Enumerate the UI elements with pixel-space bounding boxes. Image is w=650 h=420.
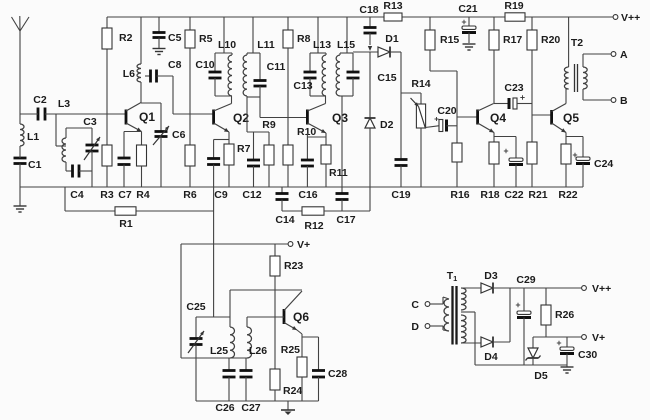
svg-text:R3: R3 bbox=[100, 189, 114, 201]
resistor R7 bbox=[224, 132, 251, 187]
transistor Q3 bbox=[307, 104, 348, 134]
svg-text:C3: C3 bbox=[83, 116, 97, 128]
svg-text:R23: R23 bbox=[284, 260, 303, 272]
svg-text:R6: R6 bbox=[183, 189, 197, 201]
antenna bbox=[12, 16, 30, 114]
capacitor C8 bbox=[145, 59, 182, 83]
svg-text:C19: C19 bbox=[391, 189, 410, 201]
resistor R9 bbox=[264, 132, 274, 187]
svg-text:L13: L13 bbox=[313, 39, 331, 51]
tank L15 bbox=[336, 17, 360, 187]
wire (emitter node) bbox=[297, 330, 319, 357]
resistor R5 bbox=[185, 17, 213, 114]
resistor R15 bbox=[425, 17, 459, 71]
diode D1 bbox=[353, 33, 401, 58]
wire V+ node bbox=[533, 336, 582, 338]
terminal D bbox=[411, 321, 449, 333]
capacitor C24 bbox=[566, 137, 613, 188]
wire (Q4 base) bbox=[457, 116, 478, 118]
svg-text:C7: C7 bbox=[118, 189, 132, 201]
capacitor C5 bbox=[153, 17, 182, 55]
capacitor C22 bbox=[494, 137, 524, 202]
resistor R1 bbox=[65, 187, 214, 230]
svg-text:C12: C12 bbox=[242, 189, 261, 201]
svg-text:C11: C11 bbox=[267, 61, 286, 73]
capacitor C29 bbox=[516, 274, 536, 365]
resistor R12 bbox=[302, 207, 342, 232]
svg-text:D2: D2 bbox=[380, 119, 394, 131]
svg-text:Q1: Q1 bbox=[139, 110, 155, 124]
svg-text:C23: C23 bbox=[504, 82, 523, 94]
diode D5 (zener) bbox=[526, 337, 548, 382]
svg-text:Q3: Q3 bbox=[332, 111, 348, 125]
svg-text:C6: C6 bbox=[172, 129, 186, 141]
resistor R10 bbox=[283, 118, 316, 188]
transistor Q6 bbox=[284, 291, 309, 330]
resistor R18 bbox=[480, 133, 499, 202]
svg-text:R13: R13 bbox=[383, 0, 402, 12]
svg-text:R18: R18 bbox=[480, 189, 499, 201]
transistor Q5 bbox=[552, 89, 580, 133]
capacitor C17 bbox=[336, 187, 371, 226]
transistor Q4 bbox=[478, 104, 507, 133]
resistor R25 bbox=[281, 344, 307, 401]
svg-text:L26: L26 bbox=[249, 345, 267, 357]
svg-text:C1: C1 bbox=[28, 159, 42, 171]
svg-text:L1: L1 bbox=[27, 131, 39, 143]
resistor R21 bbox=[527, 104, 548, 202]
diode D2 (zener) bbox=[365, 52, 394, 187]
svg-text:C28: C28 bbox=[328, 368, 347, 380]
inductor L25 bbox=[210, 327, 235, 358]
ground (antenna) bbox=[14, 187, 27, 212]
wire tank bottom bbox=[181, 357, 247, 359]
svg-text:R24: R24 bbox=[283, 385, 302, 397]
inductor L6 bbox=[123, 17, 141, 103]
wire (tank to Q3 base) bbox=[260, 97, 307, 118]
terminal C bbox=[411, 297, 449, 311]
ground (psu) bbox=[561, 365, 574, 373]
svg-text:Q4: Q4 bbox=[490, 111, 506, 125]
svg-text:C27: C27 bbox=[241, 402, 260, 414]
svg-text:L15: L15 bbox=[337, 39, 355, 51]
resistor R8 bbox=[283, 17, 311, 118]
svg-text:C29: C29 bbox=[516, 274, 535, 286]
svg-text:D5: D5 bbox=[534, 370, 548, 382]
svg-text:V+: V+ bbox=[297, 239, 310, 251]
capacitor C26 bbox=[215, 358, 235, 414]
inductor L3 bbox=[56, 98, 70, 162]
svg-text:R26: R26 bbox=[555, 309, 574, 321]
svg-text:C14: C14 bbox=[275, 214, 294, 226]
transformer T1 bbox=[444, 270, 466, 345]
svg-text:R5: R5 bbox=[199, 33, 213, 45]
svg-text:L6: L6 bbox=[123, 68, 135, 80]
potentiometer R14 bbox=[401, 78, 431, 187]
capacitor C9 bbox=[207, 140, 229, 202]
svg-text:B: B bbox=[620, 95, 628, 107]
resistor R11 bbox=[321, 133, 348, 187]
svg-text:T2: T2 bbox=[571, 37, 583, 49]
svg-text:V+: V+ bbox=[592, 332, 605, 344]
svg-text:A: A bbox=[620, 49, 628, 61]
capacitor C6 (variable) bbox=[141, 103, 186, 187]
svg-text:D: D bbox=[411, 321, 419, 333]
resistor R6 bbox=[183, 114, 197, 201]
svg-text:D1: D1 bbox=[385, 33, 399, 45]
svg-text:R8: R8 bbox=[297, 33, 311, 45]
resistor R4 bbox=[136, 132, 150, 202]
svg-text:V++: V++ bbox=[621, 12, 640, 24]
diode D4 bbox=[461, 288, 510, 363]
svg-text:R14: R14 bbox=[411, 78, 430, 90]
wire (Q6 base) bbox=[247, 316, 284, 318]
svg-text:L3: L3 bbox=[58, 98, 70, 110]
resistor R22 bbox=[558, 133, 577, 202]
svg-text:C21: C21 bbox=[458, 3, 477, 15]
inductor L1 bbox=[20, 114, 39, 146]
capacitor C23 bbox=[494, 82, 532, 109]
terminal V+ (oscillator) bbox=[288, 239, 310, 251]
capacitor C16 bbox=[298, 133, 326, 201]
svg-text:C20: C20 bbox=[437, 105, 456, 117]
svg-text:C2: C2 bbox=[33, 94, 47, 106]
svg-text:R19: R19 bbox=[504, 0, 523, 12]
resistor R13 bbox=[383, 0, 402, 21]
svg-text:C30: C30 bbox=[578, 349, 597, 361]
wire top supply rail bbox=[107, 16, 613, 18]
terminal V+ (psu) bbox=[582, 332, 606, 344]
capacitor C14 bbox=[275, 187, 302, 226]
svg-text:C26: C26 bbox=[215, 402, 234, 414]
wire (Q5 base) bbox=[532, 114, 552, 116]
svg-text:C5: C5 bbox=[168, 32, 182, 44]
svg-text:C18: C18 bbox=[359, 4, 378, 16]
svg-text:R9: R9 bbox=[262, 119, 276, 131]
wire V+ feed bbox=[181, 244, 288, 358]
svg-text:C24: C24 bbox=[594, 158, 613, 170]
terminal A bbox=[583, 49, 628, 67]
svg-text:C13: C13 bbox=[293, 80, 312, 92]
svg-text:C15: C15 bbox=[377, 72, 396, 84]
svg-text:L11: L11 bbox=[257, 39, 275, 51]
capacitor C1 bbox=[14, 146, 42, 187]
svg-text:R21: R21 bbox=[528, 189, 547, 201]
svg-text:D3: D3 bbox=[484, 270, 498, 282]
terminal B bbox=[583, 89, 628, 107]
resistor R3 bbox=[100, 114, 114, 201]
capacitor C21 bbox=[458, 3, 477, 50]
capacitor C28 bbox=[312, 337, 347, 401]
capacitor C30 bbox=[557, 337, 598, 365]
svg-text:R15: R15 bbox=[440, 34, 459, 46]
svg-text:R20: R20 bbox=[541, 34, 560, 46]
terminal V++ bbox=[613, 12, 640, 24]
svg-text:R10: R10 bbox=[297, 126, 316, 138]
resistor R2 bbox=[102, 17, 133, 114]
svg-text:C17: C17 bbox=[336, 214, 355, 226]
capacitor C25 (variable) bbox=[186, 301, 230, 401]
svg-text:C: C bbox=[411, 299, 419, 311]
svg-text:R17: R17 bbox=[503, 34, 522, 46]
transistor Q2 bbox=[214, 104, 250, 133]
capacitor C7 bbox=[118, 132, 142, 202]
svg-text:Q5: Q5 bbox=[563, 111, 579, 125]
resistor R17 bbox=[489, 17, 522, 104]
capacitor C12 bbox=[242, 132, 261, 201]
svg-text:C25: C25 bbox=[186, 301, 205, 313]
svg-text:R12: R12 bbox=[304, 220, 323, 232]
wire (L11 tank to R9) bbox=[247, 97, 276, 132]
svg-text:R25: R25 bbox=[281, 344, 300, 356]
capacitor C27 bbox=[240, 358, 261, 414]
terminal V++ (psu) bbox=[582, 283, 612, 295]
resistor R19 bbox=[504, 0, 525, 21]
svg-text:C4: C4 bbox=[70, 189, 84, 201]
transformer T2 bbox=[564, 17, 587, 92]
svg-text:R4: R4 bbox=[136, 189, 150, 201]
capacitor C20 bbox=[425, 105, 457, 132]
svg-text:R2: R2 bbox=[119, 32, 133, 44]
svg-text:R11: R11 bbox=[329, 167, 348, 179]
ground (oscillator) bbox=[281, 401, 295, 415]
svg-text:C16: C16 bbox=[298, 189, 317, 201]
diode D3 bbox=[461, 270, 582, 294]
wire center tap bbox=[461, 312, 567, 365]
svg-text:R7: R7 bbox=[237, 143, 251, 155]
svg-text:Q6: Q6 bbox=[293, 310, 309, 324]
wire oscillator ground rail bbox=[196, 400, 319, 402]
wire (injection to oscillator) bbox=[213, 187, 215, 317]
svg-text:D4: D4 bbox=[484, 351, 498, 363]
svg-text:L25: L25 bbox=[210, 345, 228, 357]
wire (C8 to Q2 base) bbox=[173, 76, 213, 114]
resistor R26 bbox=[541, 288, 574, 337]
svg-text:R1: R1 bbox=[119, 218, 133, 230]
svg-text:L10: L10 bbox=[218, 39, 236, 51]
resistor R16 bbox=[450, 71, 469, 201]
svg-text:C22: C22 bbox=[504, 189, 523, 201]
wire main ground rail bbox=[20, 186, 583, 188]
transistor Q1 bbox=[126, 103, 155, 132]
tank L13 C13 bbox=[293, 17, 331, 104]
resistor R24 bbox=[270, 290, 302, 401]
resistor R23 bbox=[270, 244, 303, 290]
inductor L26 bbox=[247, 317, 267, 358]
capacitor C4 bbox=[66, 162, 92, 201]
tank L11 C11 bbox=[243, 17, 286, 97]
svg-text:V++: V++ bbox=[592, 283, 611, 295]
tank L10 C10 bbox=[195, 17, 236, 104]
resistor R20 bbox=[527, 17, 560, 104]
svg-text:C8: C8 bbox=[168, 59, 182, 71]
capacitor C3 (variable) bbox=[66, 116, 100, 171]
svg-text:R16: R16 bbox=[450, 189, 469, 201]
capacitor C15/C19 column bbox=[377, 52, 410, 201]
svg-text:C9: C9 bbox=[214, 189, 228, 201]
svg-text:R22: R22 bbox=[558, 189, 577, 201]
wire (feedback) bbox=[230, 290, 302, 327]
svg-text:C10: C10 bbox=[195, 59, 214, 71]
capacitor C18 bbox=[359, 4, 378, 51]
capacitor C2 bbox=[20, 94, 126, 121]
